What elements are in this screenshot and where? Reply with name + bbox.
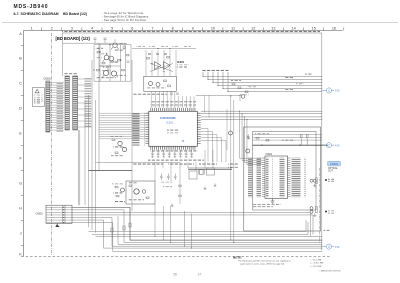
junction dots op-amp	[151, 48, 170, 72]
resistor R402	[116, 195, 119, 197]
top ruler ticks	[42, 27, 344, 30]
transistor Q611	[241, 95, 245, 99]
svg-text:16: 16	[332, 26, 336, 30]
svg-text:6: 6	[131, 26, 133, 30]
svg-text:2: 2	[51, 26, 53, 30]
net labels left of IC601	[228, 163, 239, 167]
resistor array RA301	[65, 76, 69, 130]
left ruler letters	[19, 32, 22, 257]
labels strips top	[63, 73, 77, 74]
svg-text:7: 7	[151, 26, 153, 30]
svg-text:OPTICAL: OPTICAL	[328, 167, 339, 170]
wire bus line B1	[89, 220, 307, 232]
svg-text:3: 3	[328, 245, 330, 249]
resistor R311 in riser	[129, 223, 131, 227]
module box M401	[126, 181, 155, 204]
capacitor C202	[156, 54, 159, 55]
svg-text:OUT: OUT	[328, 171, 333, 173]
wires IC101 left pins	[99, 113, 145, 139]
svg-text:CN301: CN301	[36, 213, 44, 215]
resistor array RA302	[73, 76, 78, 130]
svg-text:9: 9	[192, 26, 194, 30]
value labels cluster Q301	[110, 136, 124, 157]
wire bus group B	[201, 111, 322, 165]
svg-text:10: 10	[211, 26, 215, 30]
svg-text:P.28: P.28	[335, 247, 340, 249]
top ruler line	[23, 30, 342, 32]
resistors vertical x180	[179, 185, 182, 196]
svg-text:5: 5	[111, 26, 113, 30]
resistor R104	[122, 69, 125, 71]
resistor R601	[256, 138, 259, 140]
wire grid amp cluster	[94, 45, 131, 82]
ic IC101 pins	[145, 108, 200, 150]
wires strip fanout	[78, 79, 93, 127]
resistor R612	[238, 87, 241, 89]
svg-text:CN302: CN302	[44, 79, 52, 81]
capacitor C203	[164, 54, 167, 55]
left ruler line	[23, 31, 25, 257]
transistor Q102	[104, 55, 109, 60]
caution triangle	[35, 89, 39, 93]
value labels amp cluster	[95, 48, 126, 79]
ground G403	[171, 204, 174, 207]
resistor R101	[97, 51, 100, 53]
svg-text:8: 8	[172, 26, 174, 30]
wire vertical right collector	[321, 33, 323, 250]
label TP601	[328, 179, 334, 182]
ic IC101 body	[149, 111, 198, 146]
resistor R401	[115, 186, 118, 188]
svg-text:D: D	[19, 106, 22, 110]
parts row below op-amp	[133, 93, 179, 95]
svg-text:- See page 60 for IC Block Dia: - See page 60 for IC Block Diagrams.	[102, 15, 149, 19]
transistor Q401	[134, 189, 139, 194]
more value labels cluster	[96, 43, 126, 71]
net label right edge	[324, 230, 330, 231]
module box M402	[207, 168, 215, 175]
net label B+	[305, 74, 312, 75]
net labels bus A risers	[202, 70, 230, 71]
wires CN302 pins	[50, 83, 64, 131]
svg-text:○ : B+ LINE: ○ : B+ LINE	[310, 258, 322, 261]
svg-text:H: H	[19, 206, 22, 210]
wire analog top rail	[132, 48, 196, 50]
wires shield box top rails	[253, 135, 322, 141]
ic IC101 left pin labels	[133, 113, 146, 146]
svg-text:- See page 34 for Waveforms.: - See page 34 for Waveforms.	[102, 11, 144, 15]
svg-text:- See page 53 for IC Pin Funct: - See page 53 for IC Pin Function.	[102, 18, 147, 22]
capacitor C201	[148, 54, 151, 55]
labels below IC601	[253, 204, 281, 208]
ic IC101 top pin numbers	[150, 105, 196, 107]
wire CN301 pin3 long	[72, 212, 311, 236]
ic IC101 top labels	[150, 101, 196, 103]
wires into op-amp stage	[146, 50, 176, 76]
capacitor C102	[127, 61, 130, 62]
svg-text:IC601: IC601	[266, 153, 273, 156]
wire cluster left rail	[89, 170, 133, 172]
test point TP602	[325, 211, 327, 213]
diode D601	[247, 135, 250, 140]
wire feed cluster A	[196, 95, 240, 101]
transistor Q202	[156, 83, 160, 87]
resistor R201	[147, 58, 150, 60]
transistor Q301	[118, 141, 122, 145]
svg-text:BD Board (1/2): BD Board (1/2)	[63, 12, 87, 16]
ic IC101 bottom pin numbers	[150, 150, 197, 152]
caution note box	[33, 88, 45, 107]
resistor R102	[102, 62, 105, 64]
capacitor C103	[94, 38, 97, 39]
value labels filter block	[146, 88, 166, 89]
wires verticals right of IC101	[231, 96, 234, 242]
ground J602	[313, 214, 316, 217]
crystal X401	[198, 170, 204, 175]
ground G402	[214, 184, 217, 187]
wire cluster mid vertical	[109, 45, 111, 82]
svg-text:IC101: IC101	[166, 121, 174, 125]
svg-text:1: 1	[328, 89, 330, 93]
ic IC601 body and pins	[262, 156, 291, 199]
shield chain line right	[319, 168, 321, 243]
net labels top row	[62, 31, 320, 33]
wire bottom bus from CN301	[72, 207, 322, 251]
shield box inner	[253, 132, 317, 211]
labels CN302 pins	[53, 82, 63, 132]
capacitors row y176	[160, 174, 177, 181]
caution text lines	[34, 95, 43, 104]
svg-text:26: 26	[173, 273, 177, 277]
value labels op-amp	[177, 64, 189, 68]
junction dots power rail	[261, 145, 300, 146]
shield box outer	[244, 127, 321, 231]
parts labels row y164	[133, 163, 217, 164]
wires IC101 right pins lower	[201, 129, 226, 163]
svg-text:[BD BOARD] (1/2): [BD BOARD] (1/2)	[56, 36, 91, 41]
wires center taps to bus	[154, 204, 192, 249]
labels above analog rail	[136, 46, 191, 47]
resistor R602	[266, 140, 269, 142]
wire cluster top rail	[188, 168, 232, 170]
transistor Q101	[113, 43, 117, 47]
wires long verticals left	[78, 43, 99, 233]
svg-text:27: 27	[198, 273, 202, 277]
transistor Q201	[149, 82, 153, 86]
value labels cluster Q401	[112, 183, 125, 202]
svg-text:J: J	[20, 231, 22, 235]
wires QFP right verticals	[205, 95, 227, 150]
svg-text:15: 15	[312, 26, 316, 30]
connector badge CN601	[328, 161, 341, 166]
ic IC601 right pin labels	[292, 158, 306, 198]
optical jack J601	[310, 178, 317, 184]
resistor R312 in riser	[123, 226, 125, 230]
svg-text:IC201: IC201	[177, 60, 185, 64]
value labels shield box top	[255, 133, 294, 140]
svg-text:spare parts in some areas. (Re: spare parts in some areas. (Refer to pag…	[240, 262, 285, 265]
svg-text:NOTE:: NOTE:	[233, 256, 242, 260]
top ruler numbers	[31, 26, 336, 30]
resistor R301	[112, 139, 115, 141]
wire stub cluster top	[63, 39, 128, 43]
junction dots bus A	[230, 95, 240, 97]
resistor R405	[146, 197, 149, 199]
svg-text:P.28: P.28	[335, 145, 340, 147]
resistor R106	[97, 69, 100, 71]
ic IC601 internal pin names	[266, 158, 287, 198]
wire power rail	[253, 144, 329, 146]
svg-text:12: 12	[251, 26, 255, 30]
transistor lead marks	[102, 47, 119, 78]
wires below IC101	[155, 150, 213, 204]
svg-text:The BD board and MD mechanism: The BD board and MD mechanism are not su…	[238, 260, 292, 263]
value labels row y178	[160, 181, 172, 187]
svg-text:1: 1	[31, 26, 33, 30]
wire CN301 pin4 long	[72, 215, 313, 235]
wire vertical x132	[131, 60, 133, 211]
svg-text:CN601: CN601	[330, 162, 339, 166]
svg-text:4: 4	[91, 26, 93, 30]
header rule	[2, 22, 398, 24]
resistor R404	[129, 185, 132, 187]
board boundary chain line	[51, 33, 53, 256]
wires IC101 top pins	[152, 91, 194, 108]
transistor Q402	[121, 188, 125, 192]
ground J601	[313, 184, 316, 187]
label TP602	[328, 210, 334, 213]
wire crossing pair	[150, 64, 173, 72]
label optical out	[328, 167, 339, 173]
svg-text:11: 11	[231, 26, 235, 30]
op-amp U201a	[155, 62, 162, 70]
wire bus line B3	[96, 235, 323, 237]
net labels on bus A	[285, 77, 304, 90]
capacitors IC101 decoupling row	[151, 150, 193, 158]
transistor Q403	[142, 190, 146, 194]
transistor Q601	[246, 149, 250, 153]
svg-text:3: 3	[71, 26, 73, 30]
svg-text:△ : 3.3V LINE: △ : 3.3V LINE	[310, 262, 324, 265]
connector CN301 key slots	[63, 205, 66, 223]
labels strip fanout	[79, 78, 91, 128]
svg-text:CXD2664R: CXD2664R	[160, 116, 176, 120]
header	[2, 4, 398, 23]
bottom ruler dashed line	[21, 256, 330, 258]
capacitor C601	[301, 134, 303, 145]
capacitor C104	[104, 38, 107, 39]
value label M401	[128, 182, 144, 200]
transistor Q103	[109, 56, 114, 61]
wire top label bus	[62, 32, 322, 34]
resistor R105	[126, 54, 129, 56]
transistor Q612	[229, 131, 233, 135]
transistor Q104	[103, 70, 108, 75]
resistor R204	[168, 85, 171, 87]
connector CN302 body	[46, 81, 50, 132]
svg-text:13: 13	[271, 26, 275, 30]
resistor R203	[164, 80, 167, 82]
resistor R202	[167, 57, 170, 59]
ground IC601	[271, 199, 275, 204]
connector marker 1	[322, 88, 340, 93]
svg-text:G: G	[19, 181, 22, 185]
resistor R613	[245, 91, 248, 93]
connector marker 3	[322, 244, 340, 249]
svg-text:□ : 5V LINE: □ : 5V LINE	[310, 265, 322, 268]
ground G401	[204, 187, 207, 190]
capacitor C101	[123, 45, 126, 50]
resistor R611	[232, 83, 235, 85]
wire cluster Q301 rail	[96, 162, 181, 164]
ic IC601 left pin labels	[248, 158, 261, 198]
wire vertical x62	[62, 33, 64, 76]
ic IC101 sub label	[167, 130, 178, 134]
wire bus line y244	[118, 216, 322, 244]
svg-text:2: 2	[328, 144, 330, 148]
svg-text:* : SEE NOTE ON P.26: * : SEE NOTE ON P.26	[318, 271, 341, 273]
transistor Q105	[111, 71, 116, 76]
relay box RY401	[189, 171, 197, 179]
wire cluster mid horizontal	[100, 65, 121, 67]
ground CN301	[55, 223, 59, 227]
connector CN301 pin rows	[46, 207, 72, 222]
svg-text:6-7. SCHEMATIC DIAGRAM: 6-7. SCHEMATIC DIAGRAM	[14, 12, 59, 16]
transistor Q302	[122, 147, 126, 151]
resistor R313 in riser	[111, 228, 113, 232]
svg-text:P.28: P.28	[335, 91, 340, 93]
svg-text:C: C	[19, 81, 22, 85]
connector marker 2	[322, 143, 340, 148]
left ruler ticks	[21, 46, 24, 246]
filter block FL201	[144, 76, 177, 91]
optical jack J602	[310, 207, 317, 214]
svg-text:MDS-JB940: MDS-JB940	[14, 4, 48, 10]
resistor R302	[115, 152, 118, 154]
ic IC101 bottom labels	[148, 159, 204, 161]
junction dots band verticals	[230, 240, 234, 243]
op-amp U201b	[164, 62, 171, 70]
connector CN301 body	[46, 205, 72, 223]
junction dots cluster	[93, 44, 121, 71]
svg-text:14: 14	[292, 26, 296, 30]
capacitor C602	[307, 134, 309, 145]
test point TP601	[325, 179, 327, 181]
resistor R103	[118, 59, 121, 61]
value labels bus A cluster	[231, 80, 256, 96]
wire bus group A to CN601	[202, 72, 322, 92]
wire bus line B2	[92, 222, 308, 235]
